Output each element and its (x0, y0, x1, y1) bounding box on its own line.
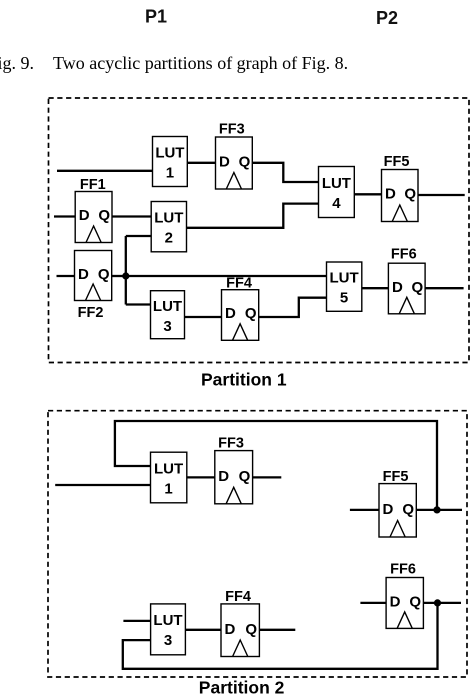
flip-flop FF6 (partition 1) (388, 247, 425, 314)
partition 2 dashed boundary box (48, 411, 467, 677)
LUT1 (partition 2) (151, 452, 187, 503)
svg-text:Q: Q (404, 186, 416, 203)
svg-text:5: 5 (340, 290, 348, 307)
wire branch to LUT2 lower input (126, 235, 152, 237)
wire LUT5 to FF6 (362, 287, 390, 289)
wire FF4.Q output stub (partition 2) (259, 629, 295, 631)
flip-flop FF3 (partition 1) (216, 122, 253, 190)
svg-text:Q: Q (98, 266, 110, 283)
svg-text:LUT: LUT (154, 209, 183, 226)
svg-text:1: 1 (166, 165, 174, 182)
svg-text:4: 4 (332, 195, 341, 212)
svg-text:FF2: FF2 (78, 305, 104, 321)
svg-text:Q: Q (409, 593, 421, 610)
flip-flop FF4 (partition 2) (221, 589, 259, 657)
svg-text:Fig. 9.: Fig. 9. (0, 53, 34, 73)
junction node dot at FF6.Q (partition 2) (434, 599, 441, 606)
svg-text:3: 3 (163, 318, 171, 335)
wire LUT2 output to LUT4 lower input (186, 204, 319, 228)
flip-flop FF5 (partition 2) (379, 469, 416, 537)
wire FF6.Q output (partition 2) (423, 602, 461, 604)
wire feedback FF6.Q to LUT3 lower input (bottom loop) (123, 603, 438, 669)
svg-text:D: D (383, 501, 394, 518)
wire LUT1 to FF3 (partition 2) (187, 476, 216, 478)
wire feedback FF5.Q to LUT1 upper input (top loop) (115, 421, 437, 508)
svg-text:P2: P2 (376, 8, 398, 28)
LUT3 (partition 2) (151, 604, 186, 655)
wire junction vertical branch (125, 236, 127, 305)
wire FF2.Q to junction (111, 275, 126, 277)
svg-text:D: D (385, 186, 396, 203)
wire LUT3 to FF4 (partition 2) (185, 629, 222, 631)
wire LUT4 to FF5 (354, 193, 382, 195)
svg-text:D: D (79, 207, 90, 224)
svg-text:D: D (219, 153, 230, 170)
svg-text:FF6: FF6 (391, 247, 417, 263)
svg-text:3: 3 (164, 632, 172, 649)
partition 1 dashed boundary box (49, 98, 470, 363)
svg-text:Two acyclic partitions of grap: Two acyclic partitions of graph of Fig. … (53, 53, 348, 73)
svg-text:Q: Q (412, 279, 424, 296)
wire input stub to LUT3 upper (partition 2) (123, 620, 151, 622)
wire input to FF1 (54, 215, 76, 217)
wire input to LUT1 lower (55, 484, 151, 486)
junction node dot on FF2 output net (122, 272, 129, 279)
svg-text:Partition 1: Partition 1 (201, 369, 287, 389)
LUT1 (partition 1) (153, 137, 188, 187)
svg-text:LUT: LUT (154, 461, 183, 478)
wire input to FF2 (57, 275, 76, 277)
svg-text:LUT: LUT (153, 298, 182, 315)
LUT3 (partition 1) (151, 291, 185, 339)
LUT2 (partition 1) (151, 202, 186, 252)
flip-flop FF5 (partition 1) (382, 154, 419, 222)
svg-text:Q: Q (245, 305, 257, 322)
svg-text:D: D (225, 305, 236, 322)
svg-text:D: D (218, 468, 229, 485)
junction node dot at FF5.Q (partition 2) (433, 506, 440, 513)
wire LUT3 to FF4 (184, 316, 222, 318)
wire input to FF6 (partition 2) (360, 602, 387, 604)
svg-text:Q: Q (245, 621, 257, 638)
svg-text:1: 1 (164, 481, 172, 498)
svg-text:D: D (225, 621, 236, 638)
wire branch to LUT3 input (126, 303, 151, 305)
svg-text:FF5: FF5 (383, 469, 409, 485)
svg-text:P1: P1 (145, 7, 167, 27)
svg-text:FF1: FF1 (80, 177, 106, 193)
svg-text:D: D (78, 266, 89, 283)
svg-text:FF3: FF3 (218, 436, 244, 452)
svg-text:LUT: LUT (153, 612, 182, 629)
svg-text:FF4: FF4 (225, 589, 251, 605)
flip-flop FF6 (partition 2) (386, 562, 423, 629)
wire FF4.Q to LUT5 lower input (259, 298, 328, 317)
wire junction to LUT5 upper input (126, 275, 327, 277)
LUT5 (partition 1) (327, 262, 362, 311)
svg-text:Q: Q (239, 153, 251, 170)
svg-text:FF6: FF6 (390, 562, 416, 578)
svg-text:Q: Q (239, 468, 251, 485)
flip-flop FF3 (partition 2) (215, 436, 253, 504)
wire FF3.Q output stub (partition 2) (252, 476, 281, 478)
flip-flop FF4 (partition 1) (222, 276, 259, 341)
svg-text:Q: Q (402, 501, 414, 518)
svg-text:Partition 2: Partition 2 (199, 678, 285, 697)
svg-text:FF3: FF3 (219, 122, 245, 138)
wire FF6.Q output (425, 287, 464, 289)
flip-flop FF1 (partition 1) (75, 177, 112, 243)
svg-text:LUT: LUT (330, 270, 359, 287)
svg-text:D: D (390, 593, 401, 610)
svg-text:Q: Q (98, 207, 110, 224)
wire FF5.Q output (partition 2) (416, 509, 462, 511)
wire FF1.Q to LUT2 (112, 215, 153, 217)
wire FF5.Q output (418, 194, 465, 196)
flip-flop FF2 (partition 1, label below) (75, 251, 112, 322)
svg-text:LUT: LUT (155, 145, 184, 162)
svg-text:LUT: LUT (322, 175, 351, 192)
LUT4 (partition 1) (319, 167, 355, 218)
wire input to FF5 (partition 2) (350, 509, 380, 511)
svg-text:D: D (392, 279, 403, 296)
svg-text:FF5: FF5 (384, 154, 410, 170)
wire FF3.Q to LUT4 upper input (252, 163, 319, 182)
wire LUT1 to FF3 (187, 162, 216, 164)
wire input to LUT1 (57, 170, 153, 172)
svg-text:2: 2 (165, 229, 173, 246)
